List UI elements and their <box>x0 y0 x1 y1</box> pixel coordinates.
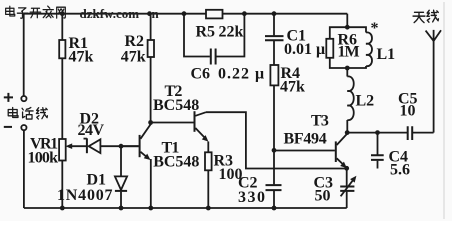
svg-text:330: 330 <box>238 189 267 206</box>
svg-text:D1: D1 <box>87 172 107 189</box>
wire C1 branch top <box>273 14 275 36</box>
capacitor C2 <box>266 185 282 190</box>
minus sign <box>4 126 12 128</box>
wire R2 to T1 collector node <box>150 57 152 123</box>
transistor T1 <box>140 124 151 160</box>
variable capacitor C3 <box>340 168 356 208</box>
diode D1 <box>115 146 127 208</box>
node R6 L1 bottom <box>345 66 350 71</box>
node bottom rail R3 <box>206 206 211 211</box>
terminal - circle <box>21 125 26 130</box>
inductor L2 <box>347 68 353 133</box>
wire top rail left segment <box>24 13 206 15</box>
capacitor C6 right frame wire <box>217 14 245 57</box>
svg-text:47k: 47k <box>121 49 146 66</box>
svg-text:24V: 24V <box>78 122 105 139</box>
svg-text:1M: 1M <box>338 44 360 61</box>
resistor R4 <box>270 65 278 85</box>
node bottom rail VR1 <box>60 206 65 211</box>
node top rail C1 <box>272 11 277 16</box>
wire left rail down to + terminal <box>23 14 25 96</box>
node T1 collector <box>148 120 153 125</box>
svg-text:47k: 47k <box>280 79 305 96</box>
node T3 collector <box>345 130 350 135</box>
wire T1 emitter to bottom rail <box>150 159 152 208</box>
wire top rail right segment <box>223 13 348 15</box>
capacitor C6 left frame wire <box>184 14 210 57</box>
svg-text:50: 50 <box>315 188 331 205</box>
svg-text:L2: L2 <box>356 93 375 110</box>
node bottom rail D1 <box>119 206 124 211</box>
wire R1 to VR1 <box>61 58 63 139</box>
node T3 base <box>272 148 277 153</box>
wire bottom rail <box>24 207 347 209</box>
transistor T3 <box>336 134 347 169</box>
potentiometer VR1 <box>59 139 66 161</box>
wire R2 branch top <box>150 14 152 40</box>
VR1 wiper arrow <box>69 145 86 147</box>
wire T3 base node down to C2 <box>273 150 275 184</box>
svg-text:R2: R2 <box>125 33 145 50</box>
svg-text:dzkfw.com: dzkfw.com <box>80 6 140 21</box>
svg-text:R5: R5 <box>196 24 216 41</box>
wire C2 to bottom rail <box>273 191 275 208</box>
wire R6 L1 branch from rail <box>346 14 348 28</box>
svg-text:100k: 100k <box>28 150 59 167</box>
capacitor C1 <box>265 36 284 40</box>
svg-text:1N4007: 1N4007 <box>57 187 113 204</box>
resistor R5 <box>206 10 223 19</box>
svg-text:C6: C6 <box>191 66 211 83</box>
resistor R6 with L1 frame <box>326 27 366 68</box>
node top rail C6 right <box>242 11 247 16</box>
capacitor C6 plates <box>211 49 216 65</box>
svg-text:10: 10 <box>400 103 416 120</box>
scan border right edge <box>443 2 445 219</box>
label dianhuaxian telephone line <box>8 108 47 120</box>
antenna symbol <box>426 30 441 41</box>
wire T2 collector to T3 emitter <box>206 112 347 168</box>
wire R4 down to T3 base node <box>273 85 275 150</box>
wire C5 to antenna <box>413 132 434 134</box>
wire R1 branch top <box>61 14 63 40</box>
svg-text:0.22 μ: 0.22 μ <box>218 66 265 83</box>
node bottom rail C2 <box>272 206 277 211</box>
resistor R2 <box>148 40 154 57</box>
wire D2 to T1 base junction <box>121 145 139 147</box>
node bottom rail T1 emitter <box>148 206 153 211</box>
diode D2 zener <box>84 138 122 153</box>
wire VR1 to bottom rail <box>61 161 63 209</box>
svg-text:*: * <box>371 20 379 37</box>
node top rail R1 <box>60 11 65 16</box>
svg-text:n: n <box>152 6 160 21</box>
label tianxian antenna <box>413 10 438 22</box>
transistor T2 <box>195 111 209 141</box>
capacitor C5 <box>408 126 413 140</box>
wire T3 base <box>274 150 335 152</box>
node D1 T1 base <box>119 144 124 149</box>
watermark chinese dianzikaifawang <box>6 6 66 18</box>
terminal + circle <box>21 96 26 101</box>
wire antenna pole <box>433 41 435 133</box>
wire oscillator node to C5 <box>347 132 407 134</box>
node top rail C6 left <box>182 11 187 16</box>
wire R3 to bottom rail <box>207 170 209 208</box>
inductor L1 <box>366 32 372 66</box>
node top rail R2 <box>147 11 152 16</box>
svg-text:47k: 47k <box>69 49 94 66</box>
node T3 emitter <box>344 166 349 171</box>
node C4 top <box>375 130 380 135</box>
wire - terminal down to bottom rail <box>23 130 25 208</box>
svg-text:0.01 μ: 0.01 μ <box>284 41 325 58</box>
svg-text:BC548: BC548 <box>153 97 199 114</box>
wire T2 emitter to R3 <box>207 142 209 153</box>
resistor R1 <box>59 40 65 58</box>
plus sign <box>4 93 13 102</box>
svg-text:BF494: BF494 <box>284 131 327 148</box>
wire C1 to R4 <box>273 41 275 65</box>
node R6 L1 top <box>345 25 350 30</box>
svg-text:22k: 22k <box>219 24 244 41</box>
svg-text:BC548: BC548 <box>153 154 199 171</box>
svg-text:L1: L1 <box>377 46 396 63</box>
svg-text:5.6: 5.6 <box>390 162 410 179</box>
svg-text:T3: T3 <box>311 113 329 130</box>
wire T2 base <box>151 122 194 124</box>
capacitor C4 <box>371 133 384 169</box>
resistor R3 <box>205 152 212 170</box>
wire T1 base <box>121 145 139 147</box>
